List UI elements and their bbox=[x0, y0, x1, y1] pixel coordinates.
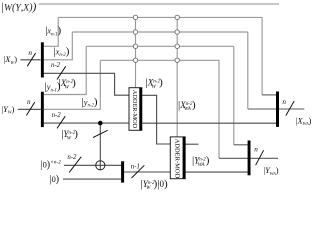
bar ancilla merger bbox=[121, 161, 124, 182]
wire W register line bbox=[39, 3, 280, 5]
wire slash X output bbox=[286, 101, 294, 116]
svg-text:n: n bbox=[282, 98, 286, 106]
svg-text:ADDER-MOD: ADDER-MOD bbox=[131, 90, 138, 129]
wire U2 passthrough stub bbox=[185, 143, 198, 145]
wire ancilla zeros bundle bbox=[64, 164, 121, 166]
svg-text:n-2: n-2 bbox=[52, 112, 62, 119]
wire row1 right drop to X output bar bbox=[261, 17, 263, 95]
svg-text:n: n bbox=[28, 49, 32, 57]
node control dot on Y bundle bbox=[98, 121, 103, 126]
wire U1 sum output long wire to X output bar bbox=[142, 122, 276, 124]
wire row1 left riser bbox=[44, 17, 59, 46]
wire row3 left riser bbox=[44, 46, 86, 94]
svg-text:n-2: n-2 bbox=[51, 62, 61, 69]
node open circle row1 col1 bbox=[133, 15, 137, 19]
wire row1 x_{n-1} horizontal bbox=[58, 16, 262, 18]
wire row3 right drop to Y output bar bbox=[233, 46, 235, 145]
wire row4 y_{n-2} horizontal bbox=[100, 59, 219, 61]
node open circle row1 col2 bbox=[175, 15, 179, 19]
svg-text:ADDER-MOD: ADDER-MOD bbox=[174, 139, 181, 179]
wire row4 left riser bbox=[44, 60, 101, 109]
wire slash ancilla zeros bbox=[69, 157, 81, 173]
wire slash Y input bbox=[26, 102, 34, 115]
wire row2 right drop through X output bar bbox=[247, 32, 249, 109]
node open circle row3 col1 bbox=[133, 44, 137, 48]
gate CNOT target bbox=[96, 161, 105, 170]
wire control column to U2 bbox=[176, 17, 178, 136]
gate U2 ADDER-MOD box bbox=[170, 137, 185, 179]
node open circle row3 col2 bbox=[175, 44, 179, 48]
wire U1 top output down to U2 bbox=[142, 95, 171, 144]
node open circle row4 col1 bbox=[133, 58, 137, 62]
wire Y input bbox=[18, 108, 41, 110]
wire row3 y_{n-1} horizontal bbox=[86, 45, 234, 47]
svg-text:n: n bbox=[27, 98, 31, 106]
svg-text:|0): |0) bbox=[50, 174, 60, 185]
wire Y bundle to U1 bbox=[44, 122, 129, 124]
svg-text:n: n bbox=[254, 145, 258, 153]
wire slash X bundle bbox=[57, 66, 66, 79]
wire row4 right drop through Y output bar bbox=[218, 60, 220, 158]
wire slash control drop bbox=[93, 130, 108, 137]
wire row2 x_{n-2} horizontal bbox=[72, 31, 248, 33]
bar X input splitter bbox=[41, 42, 44, 77]
wire U2 sum output to Y output bar bbox=[185, 171, 247, 173]
svg-text:|XW): |XW) bbox=[4, 55, 18, 65]
wire slash Y bundle bbox=[57, 116, 65, 128]
wire control column to U1 bbox=[135, 17, 137, 87]
bar X output merger bbox=[276, 92, 279, 127]
gate U1 ADDER-MOD box bbox=[129, 88, 142, 131]
wire ancilla bar output to U2 bbox=[124, 171, 170, 173]
wire ancilla single zero bbox=[63, 178, 121, 180]
node open circle row2 col1 bbox=[133, 30, 137, 34]
wire slash ancilla bar output bbox=[132, 165, 145, 178]
svg-text:|W(Y,X)): |W(Y,X)) bbox=[1, 1, 37, 13]
wire X input bbox=[21, 59, 41, 61]
wire control drop from dot to CNOT target bbox=[99, 123, 101, 170]
bar Y input splitter bbox=[41, 92, 44, 127]
node open circle row4 col2 bbox=[175, 58, 179, 62]
wire slash Y output bbox=[256, 150, 264, 165]
wire X bundle to U1 bbox=[44, 73, 129, 95]
wire slash X input bbox=[27, 53, 35, 66]
svg-text:n-1: n-1 bbox=[131, 163, 140, 170]
svg-text:n-2: n-2 bbox=[67, 154, 77, 161]
wire row2 left riser bbox=[44, 32, 73, 60]
node open circle row2 col2 bbox=[175, 30, 179, 34]
bar Y output merger bbox=[248, 141, 251, 176]
